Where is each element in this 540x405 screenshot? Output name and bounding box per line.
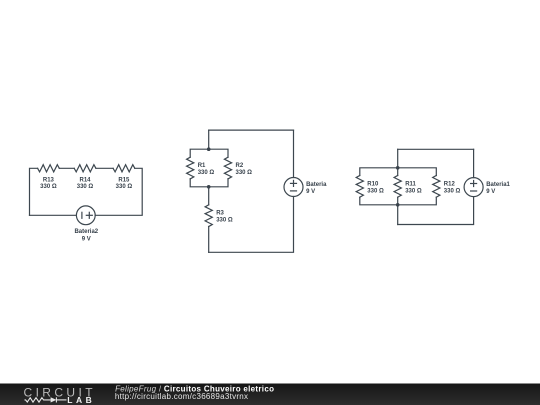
svg-text:LAB: LAB (67, 395, 95, 405)
wire top of right circuit (398, 148, 474, 150)
svg-text:R11: R11 (405, 181, 416, 187)
svg-text:330 Ω: 330 Ω (444, 189, 461, 195)
svg-text:330 Ω: 330 Ω (405, 189, 422, 195)
svg-text:9 V: 9 V (82, 236, 91, 242)
svg-text:http://circuitlab.com/c36689a3: http://circuitlab.com/c36689a3tvrnx (115, 392, 248, 401)
wire right block bottom bar (360, 197, 437, 205)
logo diode triangle (51, 397, 57, 402)
svg-text:R2: R2 (236, 163, 244, 169)
wire parallel block bottom bar (190, 179, 228, 187)
svg-text:Bateria2: Bateria2 (74, 229, 98, 235)
svg-text:330 Ω: 330 Ω (236, 170, 253, 176)
wire left+top-left of series circuit (30, 168, 38, 215)
wire battery bottom lead + bottom of middle circuit (209, 197, 294, 253)
resistor R10 (356, 176, 363, 198)
wire block to R3 (208, 187, 210, 205)
resistor R2 (224, 157, 231, 179)
wire R14-R15 (96, 167, 113, 169)
logo resistor zigzag (25, 397, 67, 402)
svg-text:Bateria: Bateria (306, 182, 327, 188)
node junction middle top (207, 147, 211, 151)
svg-text:330 Ω: 330 Ω (77, 184, 94, 190)
svg-text:330 Ω: 330 Ω (198, 170, 215, 176)
wire bottom-left of series circuit (30, 214, 77, 216)
svg-text:R10: R10 (367, 181, 379, 187)
svg-text:R12: R12 (444, 181, 456, 187)
svg-text:R15: R15 (118, 177, 130, 183)
wire R13-R14 (59, 167, 74, 169)
resistor R13 (38, 165, 60, 172)
node junction middle bottom (207, 185, 211, 189)
wire right block top bar (360, 168, 437, 176)
wire from top to parallel block (middle) (208, 130, 210, 149)
battery Bateria1 (464, 178, 483, 197)
svg-text:330 Ω: 330 Ω (367, 189, 384, 195)
wire bottom lead out of right block (397, 197, 399, 224)
node junction right top (396, 166, 400, 170)
svg-text:330 Ω: 330 Ω (116, 184, 133, 190)
battery Bateria (284, 178, 303, 197)
node junction right bottom (396, 203, 400, 207)
resistor R15 (113, 165, 135, 172)
svg-text:R14: R14 (79, 177, 91, 183)
resistor R11 (394, 176, 401, 198)
wire top of middle circuit (209, 129, 294, 131)
resistor R1 (187, 157, 194, 179)
svg-text:R1: R1 (198, 163, 206, 169)
resistor R3 (205, 205, 212, 227)
footer bar (0, 384, 540, 405)
svg-text:R3: R3 (216, 211, 224, 217)
svg-text:330 Ω: 330 Ω (40, 184, 57, 190)
svg-text:9 V: 9 V (486, 189, 495, 195)
svg-text:330 Ω: 330 Ω (216, 218, 233, 224)
wire top lead into right block (397, 149, 399, 175)
svg-text:R13: R13 (43, 177, 55, 183)
wire R3 to bottom (middle) (208, 227, 210, 253)
wire battery1 top lead (473, 149, 475, 177)
wire battery1 bottom lead + bottom of right circuit (398, 197, 474, 225)
wire top-right+right side (95, 168, 142, 215)
svg-text:Bateria1: Bateria1 (486, 182, 510, 188)
logo diode (55, 397, 57, 402)
wire battery top lead (middle) (293, 130, 295, 177)
svg-text:9 V: 9 V (306, 189, 315, 195)
wire parallel block top bar (190, 149, 228, 157)
resistor R12 (433, 176, 440, 198)
battery Bateria2 (76, 206, 95, 225)
resistor R14 (74, 165, 96, 172)
